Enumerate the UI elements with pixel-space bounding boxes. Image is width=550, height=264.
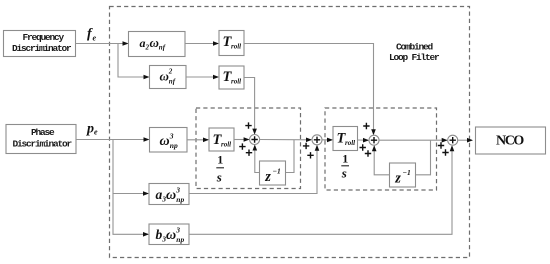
summing junction S4 [448, 135, 458, 145]
label: Combined Loop Filter [389, 42, 440, 64]
svg-text:p: p [86, 122, 94, 137]
wire: T_roll to junction S3 [358, 138, 370, 143]
block: a3*w_np^3 gain [149, 184, 189, 205]
second-order filter sub-box (dashed) [325, 108, 437, 190]
svg-text:Loop Filter: Loop Filter [389, 52, 440, 63]
summing junction S1 [250, 135, 260, 145]
wire: branch down to a3 and b3 gains [113, 140, 149, 237]
svg-text:3: 3 [169, 132, 174, 141]
block: z^-1 (sub-box 1) [260, 161, 286, 185]
svg-text:ω: ω [160, 134, 170, 149]
svg-text:Phase: Phase [31, 127, 55, 138]
svg-text:ω: ω [150, 35, 159, 50]
svg-text:NCO: NCO [496, 134, 524, 149]
svg-text:3: 3 [175, 186, 180, 195]
wire: T_roll top output right and down into junction S3 [244, 44, 376, 136]
svg-text:s: s [216, 170, 222, 185]
block: T_roll (sub-box 1) [209, 128, 234, 151]
svg-text:3: 3 [175, 226, 180, 235]
block: w_nf^2 gain [150, 66, 187, 89]
block: NCO [476, 127, 546, 154]
svg-text:np: np [176, 195, 184, 204]
combined loop filter dashed boundary [110, 7, 470, 258]
svg-text:−1: −1 [273, 166, 281, 175]
svg-text:Discriminator: Discriminator [13, 139, 73, 150]
svg-text:ω: ω [160, 69, 169, 84]
node label f_e [87, 27, 97, 43]
plus signs at junction S2 [303, 143, 314, 159]
node label p_e [86, 122, 98, 137]
wire: junction S3 output to junction S4 [379, 138, 448, 143]
summing junction S2 [312, 135, 322, 145]
wire: junction S1 output to junction S2 [260, 138, 312, 143]
svg-text:nf: nf [169, 78, 176, 86]
wire: T_roll second output right and down into junction S1 [244, 78, 257, 135]
wire: a3 gain output up into junction S2 [189, 145, 319, 194]
wire: junction S4 output to NCO [458, 138, 473, 143]
block: T_roll (top row) [219, 31, 244, 56]
wire: f_e from frequency discriminator to a2*w_nf [76, 41, 129, 46]
wire: p_e from phase discriminator to w_np^3 [76, 137, 150, 142]
label: 1/s integrator (sub-box 2) [341, 152, 349, 181]
svg-text:e: e [93, 34, 97, 43]
block: Phase Discriminator [6, 125, 76, 154]
block: T_roll (sub-box 2) [333, 127, 358, 151]
svg-text:z: z [394, 171, 401, 187]
plus signs at junction S4 [438, 142, 449, 155]
svg-text:1: 1 [217, 153, 223, 167]
wire: branch down to w_nf^2 [118, 44, 150, 80]
block: z^-1 (sub-box 2) [390, 163, 416, 187]
block: a2*w_nf gain [129, 32, 186, 57]
plus signs at junction S3 [360, 123, 372, 157]
block: w_np^3 gain [150, 128, 188, 153]
wire: w_nf^2 to T_roll (second) [186, 75, 219, 80]
wire: b3 gain output up into junction S4 [189, 145, 454, 234]
svg-text:roll: roll [345, 139, 355, 147]
svg-text:np: np [176, 235, 184, 244]
wire: junction S2 to T_roll (sub-box 2) [322, 138, 333, 143]
wire: T_roll to junction S1 [234, 137, 250, 142]
svg-text:roll: roll [231, 43, 241, 51]
label: 1/s integrator (sub-box 1) [216, 153, 224, 185]
summing junction S3 [369, 135, 379, 145]
svg-text:e: e [94, 128, 98, 137]
wire: feedback tap down into z^-1 (sub-box 1) [286, 140, 295, 173]
wire: z^-1 output up into junction S1 [253, 145, 260, 173]
block: b3*w_np^3 gain [149, 224, 189, 245]
wire: w_np^3 to T_roll in sub-box 1 [187, 138, 209, 143]
svg-text:ω: ω [166, 188, 176, 203]
svg-text:ω: ω [166, 228, 176, 243]
svg-text:nf: nf [159, 44, 166, 52]
svg-text:2: 2 [168, 68, 173, 76]
plus signs at junction S1 [239, 122, 252, 155]
svg-text:Discriminator: Discriminator [12, 43, 72, 54]
svg-text:np: np [170, 141, 178, 150]
wire: z^-1 output up into junction S3 [372, 145, 390, 175]
svg-text:roll: roll [231, 78, 241, 86]
wire: feedback tap down into z^-1 (sub-box 2) [416, 140, 431, 175]
svg-text:z: z [264, 169, 271, 185]
first-order filter sub-box (dashed) [196, 108, 301, 189]
block: Frequency Discriminator [4, 31, 76, 57]
svg-text:1: 1 [342, 152, 348, 166]
svg-text:s: s [341, 166, 347, 181]
svg-text:−1: −1 [403, 168, 411, 177]
svg-text:roll: roll [221, 141, 231, 149]
wire: a2*w_nf to T_roll (top) [185, 41, 219, 46]
svg-text:Combined: Combined [396, 42, 434, 53]
block: T_roll (second row) [219, 66, 244, 89]
svg-text:Frequency: Frequency [23, 32, 65, 43]
